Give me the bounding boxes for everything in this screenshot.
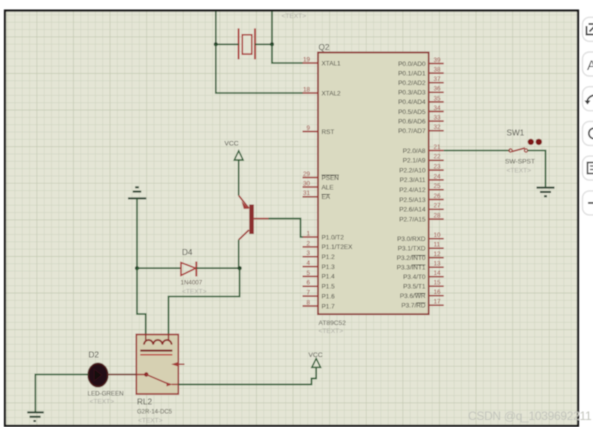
svg-text:13: 13 [434,261,442,268]
svg-text:4: 4 [306,260,310,267]
svg-text:17: 17 [434,299,442,306]
svg-text:<TEXT>: <TEXT> [282,13,307,20]
wire transistor base to P1.0 pin 1 [269,219,303,237]
svg-text:37: 37 [434,76,442,83]
svg-text:P1.4: P1.4 [322,274,336,281]
pin 14 P3.4/T0 [403,270,444,281]
svg-text:39: 39 [434,57,442,64]
svg-text:<TEXT>: <TEXT> [507,168,532,175]
svg-text:LED-GREEN: LED-GREEN [88,390,124,397]
svg-text:10: 10 [434,232,442,239]
svg-text:P1.3: P1.3 [322,264,336,271]
svg-text:P0.6/AD6: P0.6/AD6 [398,118,426,125]
svg-text:P2.7/A15: P2.7/A15 [399,216,426,223]
pin 29 PSEN [303,171,340,182]
toolbar button 4 (circle icon) [583,121,593,145]
svg-text:P2.3/A11: P2.3/A11 [400,177,426,184]
pin 21 P2.0/A8 [403,144,444,155]
svg-text:XTAL1: XTAL1 [322,60,342,67]
svg-text:P0.3/AD3: P0.3/AD3 [398,90,426,97]
svg-text:3: 3 [306,250,310,257]
svg-text:RL2: RL2 [137,398,152,407]
svg-text:PSEN: PSEN [322,175,340,182]
relay RL2 [136,335,184,395]
svg-text:16: 16 [434,289,442,296]
svg-text:CSDN @q_1039692211: CSDN @q_1039692211 [468,409,592,423]
svg-text:31: 31 [303,190,311,197]
inverted ground symbol upper left [128,187,146,198]
svg-text:P3.5/T1: P3.5/T1 [403,284,426,291]
power VCC symbol near transistor [224,140,243,160]
pin 1 P1.0/T2 [303,230,345,241]
pin 24 P2.3/A11 [400,173,444,184]
svg-text:P3.3/INT1: P3.3/INT1 [397,265,426,272]
svg-text:2: 2 [306,240,310,247]
svg-text:ALE: ALE [322,184,334,191]
svg-text:21: 21 [434,144,442,151]
wire VCC to transistor emitter [238,160,240,196]
svg-text:RST: RST [322,129,335,136]
pin 12 P3.2/INT0 [397,251,444,262]
svg-text:1N4007: 1N4007 [181,280,203,287]
svg-text:P2.2/A10: P2.2/A10 [399,167,426,174]
wire SW1 to ground [528,151,546,187]
node D junction dot [135,266,139,270]
pin 38 P0.1/AD1 [398,67,444,78]
wire relay contact to VCC riser [178,367,316,384]
svg-text:P0.5/AD5: P0.5/AD5 [398,109,426,116]
svg-text:29: 29 [303,171,311,178]
svg-text:P2.0/A8: P2.0/A8 [403,148,426,155]
node C junction dot [238,266,242,270]
pin 8 P1.7 [303,299,336,310]
pin 15 P3.5/T1 [403,280,444,291]
svg-text:28: 28 [434,213,442,220]
pin 18 XTAL2 [303,86,342,97]
svg-text:P2.5/A13: P2.5/A13 [399,197,426,204]
pin 31 EA [303,190,331,201]
wire transistor collector down to node C [238,240,240,268]
svg-text:18: 18 [303,86,311,93]
svg-text:34: 34 [434,105,442,112]
wire node C down to relay coil right terminal [169,268,240,344]
pin 26 P2.5/A13 [399,193,443,204]
svg-text:38: 38 [434,67,442,74]
pin 3 P1.2 [303,250,336,261]
svg-text:P3.7/RD: P3.7/RD [401,303,426,310]
svg-text:SW1: SW1 [507,128,525,137]
pin 33 P0.6/AD6 [398,115,444,126]
microcontroller Q2 AT89C52 [318,53,429,315]
power VCC symbol near relay [308,352,322,367]
svg-text:19: 19 [303,56,311,63]
pin 22 P2.1/A9 [403,154,444,165]
svg-text:1: 1 [306,230,310,237]
pin 13 P3.3/INT1 [397,261,444,272]
svg-text:P3.0/RXD: P3.0/RXD [397,236,426,243]
svg-text:9: 9 [306,125,310,132]
svg-text:P1.1/T2EX: P1.1/T2EX [322,244,354,251]
pin 39 P0.0/AD0 [398,57,444,68]
pin 5 P1.4 [303,270,336,281]
svg-text:D4: D4 [182,248,193,257]
svg-text:33: 33 [434,115,442,122]
svg-text:<TEXT>: <TEXT> [319,328,344,335]
wire LED cathode to relay common (red leads) [108,374,137,376]
pin 17 P3.7/RD [401,299,443,310]
svg-text:P3.4/T0: P3.4/T0 [403,274,426,281]
svg-text:23: 23 [434,164,442,171]
wire node D down to relay coil left terminal [137,268,146,344]
svg-text:32: 32 [434,124,442,131]
switch SW1 [509,139,542,152]
svg-text:<TEXT>: <TEXT> [182,289,207,296]
svg-text:P1.7: P1.7 [322,303,336,310]
pin 7 P1.6 [303,290,336,301]
pin 9 RST [303,125,335,136]
svg-text:P1.6: P1.6 [322,293,336,300]
svg-text:11: 11 [434,242,441,249]
svg-text:7: 7 [306,290,310,297]
pin 10 P3.0/RXD [397,232,444,243]
svg-text:35: 35 [434,95,442,102]
svg-text:VCC: VCC [308,352,322,359]
svg-text:P1.5: P1.5 [322,284,336,291]
wire P2.0 to switch SW1 [444,150,510,152]
wire junction A to XTAL2 pin 18 [216,44,303,93]
svg-text:EA: EA [322,194,331,201]
wire ground to LED anode [35,375,88,412]
svg-text:Q2: Q2 [319,43,330,52]
svg-text:P0.4/AD4: P0.4/AD4 [398,99,426,106]
svg-text:14: 14 [434,270,442,277]
svg-text:G2R-14-DC5: G2R-14-DC5 [137,410,173,416]
node A junction dot [214,42,218,46]
toolbar button 6 (dash icon) [583,191,593,215]
svg-text:15: 15 [434,280,442,287]
wire junction B up to frame edge [271,12,273,45]
wire junction B to XTAL1 pin 19 [272,44,303,63]
svg-text:P1.2: P1.2 [322,254,336,261]
wire junction A up to frame edge [215,12,217,45]
pin 27 P2.6/A14 [399,203,443,214]
svg-text:P3.1/TXD: P3.1/TXD [398,246,426,253]
pin 36 P0.3/AD3 [398,86,444,97]
svg-text:P3.6/WR: P3.6/WR [400,293,426,300]
pin 35 P0.4/AD4 [398,95,444,106]
wire ground stem down to node D [136,198,138,268]
LED D2 [88,363,108,386]
svg-text:VCC: VCC [224,140,238,147]
svg-text:AT89C52: AT89C52 [319,320,347,327]
svg-text:SW-SPST: SW-SPST [505,159,535,166]
pin 19 XTAL1 [303,56,342,67]
svg-text:D2: D2 [89,351,100,360]
pin 11 P3.1/TXD [398,242,444,253]
wire crystal right plate to junction [255,43,272,45]
pin 6 P1.5 [303,280,336,291]
svg-text:P0.2/AD2: P0.2/AD2 [398,80,426,87]
svg-text:P0.1/AD1: P0.1/AD1 [398,70,426,77]
svg-text:26: 26 [434,193,442,200]
svg-text:P2.4/A12: P2.4/A12 [399,187,426,194]
pin 37 P0.2/AD2 [398,76,444,87]
svg-text:27: 27 [434,203,442,210]
svg-text:36: 36 [434,86,442,93]
svg-text:<TEXT>: <TEXT> [138,418,163,425]
svg-text:22: 22 [434,154,442,161]
svg-text:P0.7/AD7: P0.7/AD7 [398,128,426,135]
svg-text:25: 25 [434,183,442,190]
pin 30 ALE [303,180,334,191]
svg-text:P2.1/A9: P2.1/A9 [403,158,426,165]
svg-text:<TEXT>: <TEXT> [90,399,115,406]
ground below SW1 [537,188,555,197]
svg-text:P3.2/INT0: P3.2/INT0 [397,255,426,262]
svg-text:P0.0/AD0: P0.0/AD0 [398,61,426,68]
svg-text:6: 6 [306,280,310,287]
wire crystal left plate to junction [216,43,239,45]
svg-text:P2.6/A14: P2.6/A14 [399,207,426,214]
transistor Q1 (PNP) [239,196,269,240]
toolbar button 1 (export icon) [583,17,593,41]
pin 2 P1.1/T2EX [303,240,354,251]
svg-text:24: 24 [434,173,442,180]
pin 32 P0.7/AD7 [398,124,444,135]
toolbar button 5 (document icon) [583,156,593,180]
wire node D to diode D4 anode [137,267,181,269]
svg-text:XTAL2: XTAL2 [322,90,342,97]
svg-text:A: A [587,57,593,73]
toolbar button 2 (text icon) [583,52,593,76]
pin 23 P2.2/A10 [399,164,443,175]
svg-text:12: 12 [434,251,442,258]
svg-text:5: 5 [306,270,310,277]
svg-text:8: 8 [306,299,310,306]
toolbar button 3 (share arrow icon) [583,87,593,111]
pin 28 P2.7/A15 [399,213,443,224]
svg-text:30: 30 [303,180,311,187]
crystal [239,28,255,59]
pin 25 P2.4/A12 [399,183,443,194]
pin 4 P1.3 [303,260,336,271]
svg-text:P1.0/T2: P1.0/T2 [322,234,345,241]
ground bottom left [27,412,43,421]
wire diode D4 cathode to node C [196,267,239,269]
diode D4 [181,262,196,277]
pin 16 P3.6/WR [400,289,444,300]
pin 34 P0.5/AD5 [398,105,444,116]
node B junction dot [270,42,274,46]
